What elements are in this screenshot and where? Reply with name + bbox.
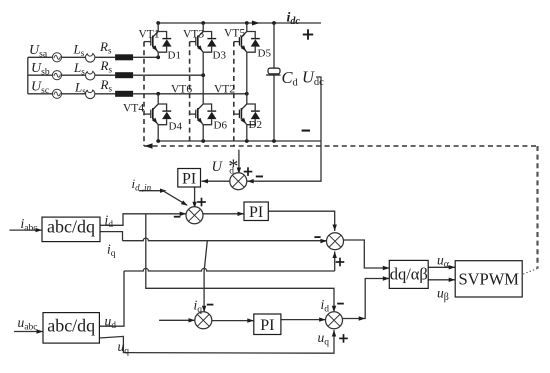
svg-text:VT3: VT3	[183, 29, 204, 41]
svg-text:D3: D3	[213, 50, 227, 62]
svg-text:VT2: VT2	[214, 84, 235, 96]
svg-text:D4: D4	[169, 121, 183, 133]
svg-text:VT1: VT1	[139, 29, 160, 41]
svg-text:VT5: VT5	[224, 28, 245, 40]
svg-text:PI: PI	[182, 170, 196, 187]
svg-text:VT6: VT6	[171, 84, 192, 96]
svg-text:D1: D1	[168, 50, 181, 62]
svg-text:PI: PI	[260, 317, 274, 334]
svg-text:abc/dq: abc/dq	[47, 217, 95, 237]
svg-text:SVPWM: SVPWM	[458, 270, 519, 289]
svg-text:D6: D6	[214, 120, 228, 132]
svg-text:abc/dq: abc/dq	[47, 316, 95, 336]
svg-text:D2: D2	[249, 119, 262, 131]
svg-text:VT4: VT4	[123, 103, 144, 115]
svg-text:PI: PI	[249, 204, 263, 221]
svg-text:U: U	[212, 159, 224, 175]
svg-text:D5: D5	[258, 48, 272, 60]
svg-text:dq/αβ: dq/αβ	[390, 265, 428, 284]
svg-text:d: d	[229, 167, 234, 177]
